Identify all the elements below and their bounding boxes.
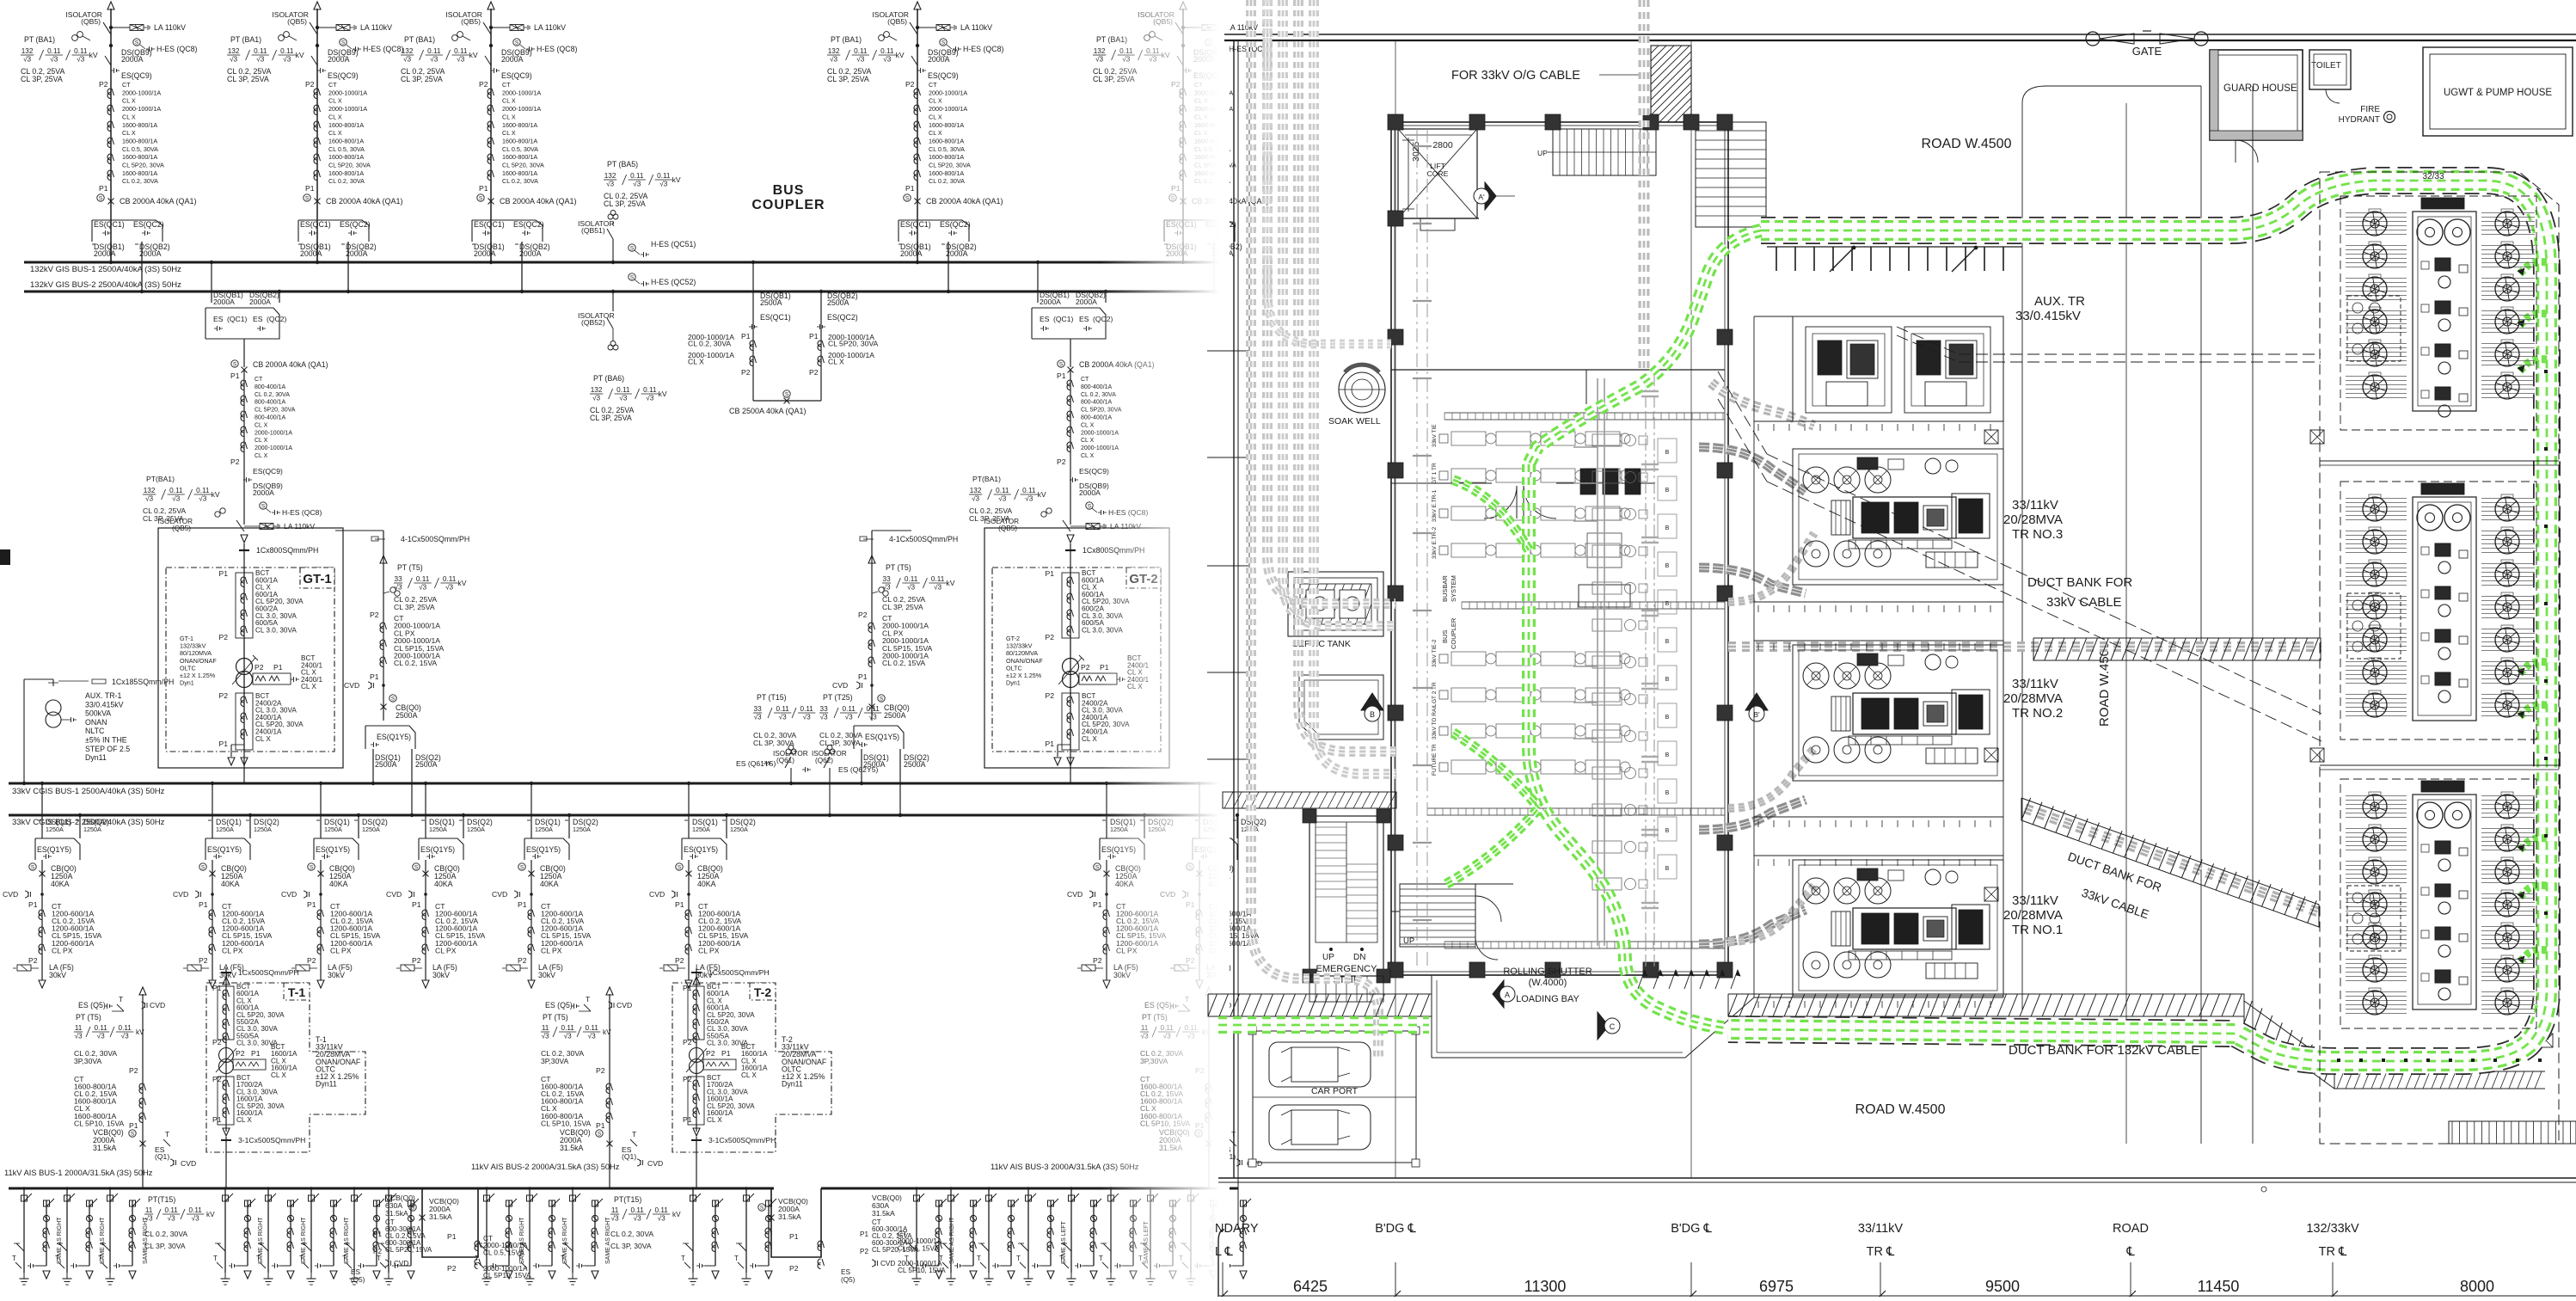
svg-text:CL X: CL X [929,129,942,137]
transformer 33/11kV TR NO.1 [1793,860,2003,996]
svg-text:0.11: 0.11 [931,575,945,583]
svg-text:P2: P2 [683,1038,692,1046]
svg-text:500kVA: 500kVA [85,709,111,718]
svg-text:T: T [586,995,591,1003]
svg-text:CL 0.2, 30VA: CL 0.2, 30VA [610,1230,653,1238]
11kV outgoing feeder bay 16 [977,1187,1019,1285]
svg-text:B': B' [1753,710,1760,719]
svg-text:CL 0.2, 30VA: CL 0.2, 30VA [502,177,538,185]
svg-text:CL 5P20, 30VA: CL 5P20, 30VA [122,162,164,169]
svg-text:CVD: CVD [1067,890,1083,899]
svg-text:CL X: CL X [255,438,268,444]
11kV outgoing feeder bay 21 [1179,1187,1221,1285]
section marker B2 [1745,693,1768,721]
svg-text:33/11kV: 33/11kV [2012,677,2058,691]
svg-text:2000-1000/1A: 2000-1000/1A [255,445,292,451]
svg-text:CT: CT [502,81,511,89]
svg-text:132: 132 [402,47,414,55]
svg-text:GUARD HOUSE: GUARD HOUSE [2223,83,2297,94]
svg-text:P2: P2 [28,956,38,965]
svg-text:ES(QC1): ES(QC1) [300,220,331,229]
emergency stair [1303,809,1390,1002]
svg-text:32/33: 32/33 [2422,172,2444,181]
svg-text:CL 0.2, 30VA: CL 0.2, 30VA [929,177,965,185]
svg-text:1600-800/1A: 1600-800/1A [122,137,157,144]
svg-text:P2: P2 [255,663,264,672]
ES Q5 label 2 [841,1268,856,1284]
survey ticks on left boundary [1207,351,1248,759]
svg-text:Dyn11: Dyn11 [782,1080,803,1089]
svg-text:1250A: 1250A [467,825,485,833]
hatched boundary wall strip left [1223,792,1396,808]
svg-text:2000A: 2000A [1079,488,1101,497]
yard fence line 1 [2320,461,2559,465]
svg-text:ES: ES [1040,315,1050,323]
svg-text:P2: P2 [858,611,868,619]
svg-text:S: S [414,865,419,871]
svg-text:TR NO.1: TR NO.1 [2012,923,2063,937]
svg-text:ES(QC9): ES(QC9) [928,71,959,80]
svg-text:(Q62): (Q62) [815,757,833,764]
svg-text:3-1Cx500SQmm/PH: 3-1Cx500SQmm/PH [708,1136,776,1145]
svg-text:H-ES (QC52): H-ES (QC52) [651,278,696,286]
cable trays horizontal [1427,413,1725,948]
svg-text:S: S [99,196,103,202]
svg-text:B'DG ℄: B'DG ℄ [1671,1222,1712,1236]
svg-text:HYDRANT: HYDRANT [2339,115,2380,125]
svg-text:CVD: CVD [173,890,188,899]
svg-text:P1: P1 [251,1049,261,1058]
svg-text:P1: P1 [218,569,228,578]
svg-text:2000A: 2000A [300,249,322,258]
svg-text:S: S [880,697,884,703]
svg-text:GATE: GATE [2132,45,2162,58]
gray duct route left band 1 [1251,0,1378,1058]
svg-text:CL X: CL X [502,97,516,105]
svg-text:ES(QC2): ES(QC2) [940,220,971,229]
loading bay green fan arrows [1638,970,1740,989]
svg-text:P2: P2 [412,956,421,965]
svg-text:P2: P2 [305,80,315,89]
svg-text:S: S [261,504,266,510]
svg-text:T: T [518,1255,522,1262]
svg-text:1250A: 1250A [692,825,710,833]
svg-text:132: 132 [970,487,982,494]
svg-text:CT: CT [255,377,263,383]
svg-text:T: T [939,1255,943,1262]
132/33kV TR yard unit 1 [2340,196,2536,430]
GATE symbol [2086,31,2208,58]
svg-text:0.11: 0.11 [280,47,294,55]
svg-text:(QC2): (QC2) [267,315,287,323]
transformer 33/11kV TR NO.2 [1793,645,2003,781]
svg-text:P1: P1 [28,900,38,909]
svg-text:132kV GIS BUS-1 2500A/40kA: 132kV GIS BUS-1 2500A/40kA (3S) 50Hz [30,265,181,274]
svg-text:TR NO.2: TR NO.2 [2012,706,2063,721]
svg-text:C: C [1610,1022,1616,1031]
svg-text:CL X: CL X [707,1116,722,1124]
svg-text:T: T [165,1130,170,1138]
33kV feeder bay 5 (DS Q1/Q2, ES Q1Y5, CB Q0 1250A, CVD, CT chain, LA F5) [492,782,598,988]
11kV outgoing feeder bay 19 [1099,1187,1150,1285]
svg-text:0.11: 0.11 [800,705,814,713]
gray duct to TR column [1711,383,1814,426]
svg-text:T: T [632,1130,637,1138]
svg-text:CL X: CL X [271,1071,286,1079]
svg-text:CL 0.5, 30VA: CL 0.5, 30VA [502,145,538,153]
svg-text:0.11: 0.11 [631,1206,645,1214]
svg-text:2000A: 2000A [94,249,116,258]
svg-text:CVD: CVD [492,890,507,899]
svg-text:2000A: 2000A [1076,298,1097,306]
svg-text:S: S [233,362,237,368]
svg-text:TOILET: TOILET [2311,61,2341,71]
corridor wall at loading bay [1391,884,1513,911]
svg-text:B'DG ℄: B'DG ℄ [1375,1222,1416,1236]
svg-text:CL 0.2, 30VA: CL 0.2, 30VA [122,177,158,185]
svg-text:LA 110kV: LA 110kV [154,23,186,32]
svg-text:2000A: 2000A [253,488,274,497]
svg-text:P2: P2 [129,1066,138,1075]
svg-text:PT (T25): PT (T25) [823,693,853,702]
svg-text:2000-1000/1A: 2000-1000/1A [255,430,292,436]
svg-text:0.11: 0.11 [119,1024,132,1032]
svg-text:2000A: 2000A [249,298,271,306]
svg-text:0.11: 0.11 [47,47,61,55]
svg-text:CAR PORT: CAR PORT [1311,1086,1359,1096]
right 11kV riser with PT T5, ES Q5, CT, VCB Q0 (faded) [1140,987,1262,1188]
svg-text:Dyn11: Dyn11 [85,753,107,762]
dashed corridor to yard unit1 [1897,327,2321,362]
svg-text:132: 132 [591,386,603,394]
svg-text:kV: kV [296,51,304,59]
gray duct top curve to lift [1267,0,1391,344]
svg-text:20/28MVA: 20/28MVA [2003,512,2063,527]
svg-text:1600-800/1A: 1600-800/1A [328,121,364,129]
boundary fence bottom right with ticks [2334,1071,2545,1089]
svg-text:PT(T15): PT(T15) [614,1195,641,1204]
svg-text:H-ES (QC8): H-ES (QC8) [363,45,403,53]
svg-text:ES(Q1Y5): ES(Q1Y5) [316,845,350,854]
duct bank diagonal hatch to unit3 [2021,798,2319,927]
svg-text:CL X: CL X [328,129,342,137]
svg-text:40KA: 40KA [329,880,348,888]
svg-text:0.11: 0.11 [643,386,657,394]
small marker on boundary bottom [2261,1187,2266,1192]
svg-text:132: 132 [228,47,240,55]
svg-text:P2: P2 [741,368,751,377]
svg-text:CL 3P, 30VA: CL 3P, 30VA [144,1242,186,1250]
svg-text:√3: √3 [542,1033,549,1040]
svg-text:√3: √3 [256,56,264,64]
11kV outgoing feeder bay 14 [905,1187,955,1285]
svg-text:ES(QC1): ES(QC1) [900,220,931,229]
road right edge [2126,86,2201,1144]
svg-text:P2: P2 [1081,663,1090,672]
site boundary top [1224,34,2576,40]
road label vertical [2097,642,2112,727]
section marker B [1361,693,1383,721]
svg-text:CVD: CVD [616,1001,632,1010]
svg-text:11450: 11450 [2198,1278,2240,1295]
11kV AIS BUS-1 [4,1169,421,1188]
svg-text:B: B [1665,866,1670,872]
svg-text:2000A: 2000A [501,55,524,64]
svg-text:PT (BA1): PT (BA1) [230,35,261,44]
svg-text:CL 3P, 25VA: CL 3P, 25VA [143,514,184,523]
svg-text:DUCT BANK FOR: DUCT BANK FOR [2027,575,2132,590]
svg-text:ES(Q1Y5): ES(Q1Y5) [684,845,718,854]
svg-text:PT (T5): PT (T5) [543,1013,568,1022]
svg-text:ES: ES [1079,315,1089,323]
svg-text:CL 3P, 25VA: CL 3P, 25VA [590,414,632,422]
11kV outgoing feeder bay 7 [342,1187,384,1285]
132kV incomer bay 1 (isolator QB5, LA, PT BA1, DS QB9, ES QC9, CT chain, CB QA1, ES QC1/QC2, DS QB1/QB2) [21,2,197,293]
132kV GIS BUS-1 [24,262,1221,274]
transformer T-2 33/11kV 20/28MVA with BCTs [672,968,831,1188]
svg-text:0.11: 0.11 [196,487,210,494]
svg-text:CVD: CVD [880,1260,895,1267]
svg-text:CB 2000A 40kA (QA1): CB 2000A 40kA (QA1) [326,197,403,206]
dimension numbers [1293,1278,2494,1295]
svg-text:T: T [256,1255,261,1262]
svg-text:UGWT & PUMP HOUSE: UGWT & PUMP HOUSE [2444,88,2552,98]
TR bay fire walls [1754,316,2003,997]
svg-text:S: S [785,392,789,398]
svg-text:P2: P2 [370,611,379,619]
svg-text:CVD: CVD [647,1159,663,1168]
svg-text:CL 0.2, 30VA: CL 0.2, 30VA [328,177,365,185]
gray duct diagonal in 33kV duct bank [2025,808,2321,913]
bus coupler label [751,183,825,212]
svg-text:3025: 3025 [1411,141,1421,162]
svg-text:Dyn11: Dyn11 [316,1080,337,1089]
svg-text:40KA: 40KA [221,880,240,888]
132/33kV TR yard unit 2 [2340,482,2536,739]
svg-text:T-2: T-2 [754,985,771,999]
green diamonds markers [2337,370,2548,1062]
svg-text:(Q61): (Q61) [776,757,794,764]
yard unit2 small cooler box [2347,593,2401,659]
svg-text:P1: P1 [273,663,283,672]
svg-text:AUX. TR-1: AUX. TR-1 [85,691,121,700]
PT BA5 with isolator QB51 and H-ES QC51 [578,160,696,264]
svg-text:B: B [1665,450,1670,456]
svg-text:kV: kV [206,1211,215,1218]
svg-text:PT (BA1): PT (BA1) [831,35,862,44]
svg-text:CL X: CL X [255,735,271,743]
svg-text:kV: kV [1038,490,1046,499]
svg-text:2000A: 2000A [328,55,350,64]
svg-text:P2: P2 [230,457,240,466]
svg-text:H-ES (QC51): H-ES (QC51) [651,240,696,249]
svg-text:S: S [31,865,35,871]
svg-text:(QC1): (QC1) [1053,315,1074,323]
svg-text:P2: P2 [860,1248,868,1255]
svg-text:CB 2000A 40kA (QA1): CB 2000A 40kA (QA1) [120,197,197,206]
svg-text:S: S [515,40,519,46]
11kV outgoing feeder bay 5 [256,1187,307,1285]
svg-text:ES(QC1): ES(QC1) [474,220,505,229]
svg-text:ES(Q1Y5): ES(Q1Y5) [37,845,71,854]
AUX TR label [2015,294,2085,323]
svg-text:P2: P2 [1057,457,1066,466]
svg-text:CL 0.5, 30VA: CL 0.5, 30VA [122,145,158,153]
svg-text:√3: √3 [97,1033,105,1040]
T-2 11kV riser with PT T5, ES Q5, CT, VCB Q0 [541,987,663,1188]
svg-text:P1: P1 [412,900,421,909]
svg-text:PT (T15): PT (T15) [757,693,787,702]
svg-text:9500: 9500 [1985,1278,2020,1295]
svg-text:P2: P2 [199,956,208,965]
svg-text:CL X: CL X [255,453,268,459]
svg-text:CT: CT [122,81,131,89]
svg-text:1600-800/1A: 1600-800/1A [122,169,157,177]
svg-text:2000A: 2000A [1040,298,1061,306]
svg-text:P2: P2 [479,80,488,89]
svg-text:√3: √3 [934,584,941,592]
svg-text:T: T [119,995,124,1003]
33kV feeder bay 2 (DS Q1/Q2, ES Q1Y5, CB Q0 1250A, CVD, CT chain, LA F5) [173,782,279,988]
svg-text:1250A: 1250A [216,825,234,833]
dimension band labels row [1215,1222,2359,1259]
svg-text:CVD: CVD [386,890,402,899]
building grid line B-DG 1 [1395,41,1396,1178]
svg-text:S: S [135,40,139,46]
svg-text:0.11: 0.11 [189,1206,203,1214]
svg-text:CL 3P, 30VA: CL 3P, 30VA [610,1242,652,1250]
svg-text:CL PX: CL PX [52,946,73,954]
duct bank diagonal text rotated [2066,850,2163,922]
svg-text:B: B [1370,710,1375,719]
svg-text:√3: √3 [430,56,438,64]
svg-text:ES(Q1Y5): ES(Q1Y5) [526,845,561,854]
svg-text:P1: P1 [858,672,868,681]
svg-text:1250A: 1250A [573,825,591,833]
svg-text:30kV: 30kV [538,971,555,979]
svg-text:0.11: 0.11 [443,575,457,583]
kerb fence north of TR column [1767,246,2022,272]
svg-text:BUS: BUS [773,183,805,198]
svg-text:2500A: 2500A [827,298,849,307]
svg-text:T: T [12,1255,16,1262]
132kV incomer bay 2 (isolator QB5, LA, PT BA1, DS QB9, ES QC9, CT chain, CB QA1, ES QC1/QC2, DS QB1/QB2) [227,2,403,293]
svg-text:S: S [305,196,310,202]
svg-text:CVD: CVD [394,1260,408,1267]
svg-text:√3: √3 [803,714,811,721]
svg-text:√3: √3 [633,181,641,188]
svg-text:11kV AIS BUS-1 2000A/31.5kA (3: 11kV AIS BUS-1 2000A/31.5kA (3S) 50Hz [4,1169,153,1177]
svg-text:√3: √3 [869,714,877,721]
svg-text:L ℄: L ℄ [1215,1245,1234,1259]
svg-text:2500A: 2500A [396,711,418,720]
svg-text:√3: √3 [121,1033,129,1040]
svg-text:PT (BA1): PT (BA1) [404,35,435,44]
svg-text:1250A: 1250A [83,825,101,833]
svg-text:CL 3P, 25VA: CL 3P, 25VA [969,514,1010,523]
transformer GT-1 (132/33kV 80/120MVA) with BCTs [158,528,343,783]
top stair 2 exterior [1696,122,1766,227]
svg-text:B: B [1665,828,1670,834]
svg-text:B: B [1665,525,1670,531]
svg-text:FIRE: FIRE [2360,105,2380,114]
svg-text:1250A: 1250A [535,825,553,833]
svg-text:CL X: CL X [1081,422,1095,428]
svg-text:ROAD: ROAD [2113,1222,2149,1236]
section marker A top [1474,182,1515,210]
svg-text:11: 11 [611,1206,619,1214]
svg-text:DN: DN [1353,953,1365,962]
svg-text:B: B [1665,677,1670,683]
svg-text:√3: √3 [564,1033,572,1040]
svg-text:1600-800/1A: 1600-800/1A [502,153,537,161]
svg-text:CL 0.2, 15VA: CL 0.2, 15VA [882,659,925,667]
svg-text:√3: √3 [172,495,180,503]
svg-text:33kV TIE: 33kV TIE [1432,424,1438,447]
svg-text:S: S [1088,504,1092,510]
svg-text:H-ES (QC8): H-ES (QC8) [963,45,1003,53]
svg-text:±5% IN THE: ±5% IN THE [85,736,127,745]
svg-text:(QB5): (QB5) [461,17,481,26]
section marker C bottom [1598,1012,1620,1040]
svg-text:31.5kA: 31.5kA [872,1209,895,1218]
svg-text:33kV TIE-2: 33kV TIE-2 [1432,639,1438,667]
green hooks into yard units [2518,262,2547,963]
svg-text:31.5kA: 31.5kA [385,1209,408,1218]
svg-text:√3: √3 [619,395,627,402]
svg-text:NLTC: NLTC [85,727,105,735]
svg-text:ES(Q1Y5): ES(Q1Y5) [865,733,899,741]
svg-text:CVD: CVD [150,1001,165,1010]
11kV outgoing feeder bay 6 [299,1187,350,1285]
svg-text:2800: 2800 [1432,140,1453,150]
svg-text:0.11: 0.11 [776,705,790,713]
svg-text:GT 1 TR: GT 1 TR [1432,463,1438,484]
svg-text:4-1Cx500SQmm/PH: 4-1Cx500SQmm/PH [889,535,958,543]
svg-text:CL 5P20, 15VA: CL 5P20, 15VA [872,1246,919,1254]
svg-text:H-ES (QC8): H-ES (QC8) [156,45,197,53]
11kV VCB 630A feeder block 1 [373,1194,432,1267]
yard unit1 small cooler box [2347,296,2401,361]
gray ducts inside TR bays [1728,533,1814,942]
svg-text:CVD: CVD [344,681,359,690]
svg-text:33kV CGIS BUS-1 2500A/40kA: 33kV CGIS BUS-1 2500A/40kA (3S) 50Hz [12,787,165,796]
svg-text:ROAD W.4500: ROAD W.4500 [1855,1102,1946,1117]
svg-text:PT (T5): PT (T5) [397,563,423,572]
busbar system black cluster [1579,469,1641,607]
11kV outgoing feeder bay 9 [475,1187,525,1285]
svg-text:33/11kV: 33/11kV [2012,498,2058,512]
svg-text:CL 0.5, 30VA: CL 0.5, 30VA [328,145,365,153]
11kV AIS BUS-2 [421,1163,774,1188]
11kV outgoing feeder bay 22 [1209,1187,1251,1285]
svg-text:CL 3P, 25VA: CL 3P, 25VA [21,75,63,83]
svg-text:0.11: 0.11 [95,1024,108,1032]
svg-text:CL X: CL X [301,683,316,690]
svg-text:(Q5): (Q5) [351,1276,365,1284]
svg-text:CL X: CL X [122,97,136,105]
svg-text:B: B [1665,790,1670,796]
dimension line with ticks [1217,1262,2576,1301]
svg-text:P1: P1 [683,1115,692,1124]
svg-text:√3: √3 [457,56,464,64]
svg-text:UP: UP [1322,953,1334,962]
svg-text:S: S [479,196,483,202]
svg-text:2000-1000/1A: 2000-1000/1A [122,89,161,96]
svg-text:P2: P2 [212,1038,222,1046]
11kV outgoing feeder bay 8 [377,1187,419,1285]
svg-text:33: 33 [883,575,892,583]
